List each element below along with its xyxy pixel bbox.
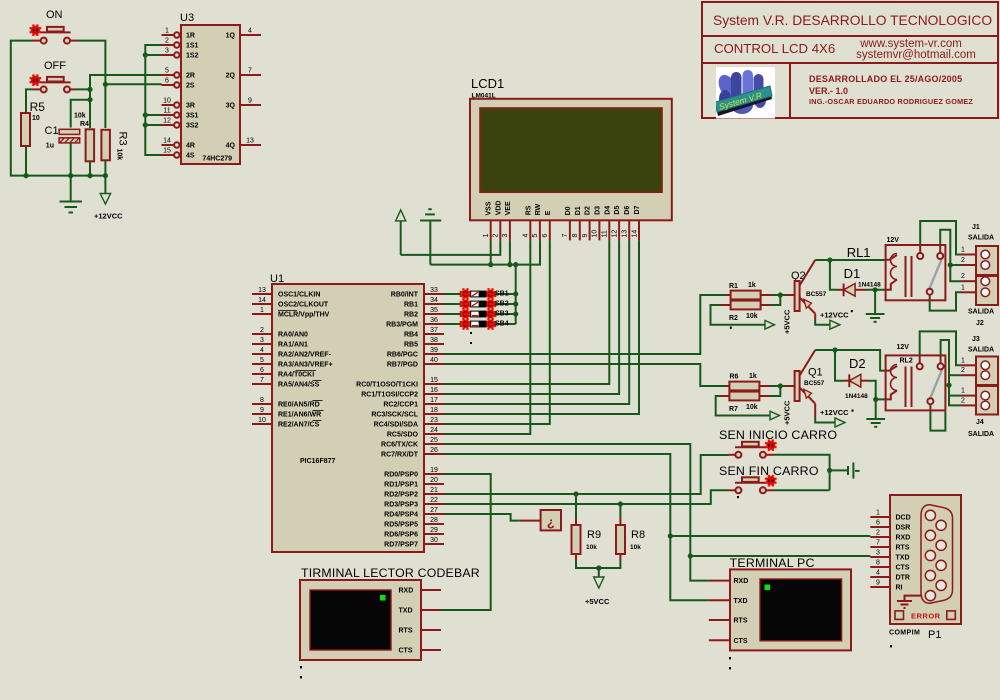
svg-text:4R: 4R [186, 143, 195, 150]
svg-text:20: 20 [430, 477, 438, 484]
svg-text:RD3/PSP3: RD3/PSP3 [384, 502, 418, 509]
ERROR indicator [895, 611, 955, 620]
svg-text:1: 1 [961, 247, 965, 254]
svg-text:D1: D1 [844, 266, 861, 281]
svg-text:SALIDA: SALIDA [968, 309, 994, 316]
wire relay NC to J1 J2 [940, 230, 961, 282]
svg-text:29: 29 [430, 527, 438, 534]
logic probe pin [520, 520, 541, 522]
node J branch ch2 [946, 383, 951, 388]
wire relay2 NO stub [930, 410, 945, 430]
svg-text:12: 12 [163, 118, 171, 125]
svg-text:D2: D2 [849, 356, 866, 371]
svg-text:8: 8 [876, 560, 880, 567]
wire Q1 emitter to +12VCC [815, 417, 835, 423]
node gnd tap ch2 [873, 397, 878, 402]
svg-text:¿: ¿ [547, 515, 555, 530]
svg-text:SALIDA: SALIDA [968, 431, 994, 438]
button OFF [30, 74, 76, 92]
svg-text:RE2/AN7/CS: RE2/AN7/CS [278, 422, 320, 429]
svg-text:3R: 3R [186, 103, 195, 110]
svg-text:3S2: 3S2 [186, 123, 199, 130]
wire RC1 to LCD D5 [444, 240, 619, 394]
U3 pin numbers [163, 28, 254, 155]
svg-text:36: 36 [430, 317, 438, 324]
U1 right pins [424, 294, 444, 544]
resistor R5 [21, 113, 30, 146]
svg-text:RB2: RB2 [404, 312, 418, 319]
node R8 tap [618, 501, 623, 506]
U3 left pins [162, 32, 180, 157]
svg-text:2: 2 [961, 257, 965, 264]
svg-text:SB3: SB3 [495, 311, 509, 318]
svg-text:ERROR: ERROR [911, 611, 941, 620]
U3 pin names [186, 33, 236, 160]
wire SB ground bus [515, 265, 517, 324]
svg-text:37: 37 [430, 327, 438, 334]
svg-text:1: 1 [961, 388, 965, 395]
svg-text:CTS: CTS [734, 638, 748, 645]
svg-text:J4: J4 [976, 419, 984, 426]
svg-text:10k: 10k [746, 404, 758, 411]
svg-text:D0: D0 [565, 206, 572, 215]
svg-text:4: 4 [876, 570, 880, 577]
wire branch J3 pin2 [949, 374, 961, 376]
svg-text:6: 6 [260, 367, 264, 374]
wire ground net VSS VEE RW [430, 240, 540, 264]
svg-text:RA4/T0CKI: RA4/T0CKI [278, 372, 314, 379]
wire INICIO right to bus [774, 455, 830, 491]
svg-text:RI: RI [896, 585, 903, 592]
svg-text:RC7/RX/DT: RC7/RX/DT [381, 452, 419, 459]
wire FIN right to bus [774, 489, 830, 491]
svg-text:P1: P1 [928, 629, 941, 641]
wire U3 S-bus [145, 45, 161, 155]
svg-text:R9: R9 [587, 529, 601, 541]
svg-text:2: 2 [260, 327, 264, 334]
relay RL1 [886, 245, 946, 300]
svg-text:10k: 10k [74, 113, 86, 120]
svg-text:TXD: TXD [399, 608, 413, 615]
svg-text:10k: 10k [746, 313, 758, 320]
svg-text:1k: 1k [749, 373, 757, 380]
svg-text:15: 15 [430, 377, 438, 384]
COMPIM pin numbers [876, 510, 880, 587]
wire R7 to +5VCC arrow [716, 396, 770, 416]
wire RD3 to SEN FIN [444, 490, 729, 504]
svg-text:D3: D3 [594, 206, 601, 215]
wire RC4 to LCD E [444, 240, 550, 424]
svg-text:23: 23 [430, 417, 438, 424]
wire SB4 to bus [495, 323, 516, 325]
svg-text:4: 4 [260, 347, 264, 354]
svg-text:2Q: 2Q [226, 73, 236, 80]
svg-text:26: 26 [430, 447, 438, 454]
ground ch1 [866, 290, 885, 322]
COMPIM pin names [896, 515, 911, 592]
svg-text:J3: J3 [972, 336, 980, 343]
svg-text:22: 22 [430, 497, 438, 504]
svg-text:D6: D6 [624, 206, 631, 215]
node Q2 base [778, 292, 783, 297]
wire RD4 to logic probe [444, 514, 520, 521]
wire OFF right to 2R [76, 75, 162, 89]
svg-text:9: 9 [248, 98, 252, 105]
svg-text:RC4/SDI/SDA: RC4/SDI/SDA [374, 422, 418, 429]
svg-text:8: 8 [260, 397, 264, 404]
node D1 tap [827, 257, 832, 262]
wire R6 R7 to Q1 base [770, 386, 795, 396]
svg-text:R5: R5 [30, 100, 46, 114]
svg-text:DSR: DSR [896, 525, 911, 532]
diode D2 [849, 374, 869, 387]
svg-text:RA5/AN4/SS: RA5/AN4/SS [278, 382, 320, 389]
svg-text:SALIDA: SALIDA [968, 235, 994, 242]
svg-text:RC6/TX/CK: RC6/TX/CK [381, 442, 418, 449]
svg-text:27: 27 [430, 507, 438, 514]
switch SB4 [444, 318, 496, 330]
power +5VCC down arrow [594, 568, 604, 588]
wire 1S2 stub [145, 54, 161, 56]
svg-text:Q1: Q1 [808, 367, 823, 379]
svg-text:R4: R4 [80, 121, 89, 128]
svg-text:25: 25 [430, 437, 438, 444]
svg-text:1S2: 1S2 [186, 53, 199, 60]
svg-text:COMPIM: COMPIM [889, 630, 920, 637]
connector J3 [961, 357, 998, 386]
svg-text:SB1: SB1 [495, 291, 509, 298]
diode D1 [844, 284, 866, 297]
svg-text:U3: U3 [180, 12, 194, 24]
svg-text:ON: ON [46, 9, 63, 21]
svg-text:DESARROLLADO EL 25/AGO/2005: DESARROLLADO EL 25/AGO/2005 [809, 74, 962, 84]
node 3S1 [143, 112, 148, 117]
resistor R9 [572, 494, 581, 560]
svg-text:1: 1 [260, 307, 264, 314]
svg-text:10: 10 [163, 98, 171, 105]
svg-text:RW: RW [535, 203, 542, 215]
hidden pin dots misc [730, 327, 732, 329]
wire C1 branch [71, 100, 90, 128]
connector COMPIM P1 [890, 495, 961, 624]
svg-text:1: 1 [961, 357, 965, 364]
button ON [30, 24, 78, 43]
wire to antenna symbol [830, 469, 848, 471]
U1 pin names [278, 292, 419, 549]
svg-text:40: 40 [430, 357, 438, 364]
svg-text:33: 33 [430, 287, 438, 294]
svg-text:VEE: VEE [505, 201, 512, 215]
power +5VCC right arrow ch1 [765, 320, 775, 329]
hidden dots terminal pc [729, 657, 731, 659]
node R4 rail [87, 173, 92, 178]
U1 overlines active-low [278, 311, 324, 421]
svg-text:R1: R1 [729, 283, 738, 290]
resistor R2 [721, 301, 771, 310]
svg-text:19: 19 [430, 467, 438, 474]
wire C1 bottom [70, 143, 72, 176]
svg-text:7: 7 [248, 68, 252, 75]
connector J4 [961, 386, 998, 415]
button SEN FIN [729, 475, 777, 493]
mcu U1 PIC16F877 [272, 284, 424, 552]
wire to D2 cathode [835, 350, 849, 381]
switch SB1 [444, 288, 496, 300]
node SB bus 314 [513, 311, 518, 316]
resistor R7 [721, 392, 770, 401]
svg-text:RB6/PGC: RB6/PGC [387, 352, 418, 359]
svg-text:RD0/PSP0: RD0/PSP0 [384, 472, 418, 479]
svg-text:RTS: RTS [734, 618, 748, 625]
node R9 tap [573, 491, 578, 496]
resistor R6 [725, 382, 770, 391]
svg-text:RC5/SDO: RC5/SDO [387, 432, 419, 439]
wire D1 anode to coil and ground [866, 289, 886, 291]
wire Q2 collector to relay coil [815, 259, 885, 261]
wire SB1 to bus [495, 293, 516, 295]
svg-text:3: 3 [165, 48, 169, 55]
svg-text:+5VCC: +5VCC [783, 309, 792, 334]
svg-text:TXD: TXD [896, 555, 910, 562]
node +5 join [596, 565, 601, 570]
svg-text:6: 6 [876, 520, 880, 527]
svg-text:RC0/T1OSO/T1CKI: RC0/T1OSO/T1CKI [356, 382, 418, 389]
terminal CODEBAR [300, 580, 421, 660]
svg-text:PIC16F877: PIC16F877 [300, 458, 336, 465]
wire 3S1 stub [145, 114, 161, 116]
svg-text:TERMINAL PC: TERMINAL PC [730, 556, 815, 570]
wire R5 bottom [25, 146, 27, 176]
svg-text:C1: C1 [45, 125, 59, 137]
LCD pin numbers rotated [483, 230, 638, 238]
svg-text:4: 4 [523, 234, 530, 238]
wire relay2 common to J3 pin1 [920, 331, 961, 365]
svg-text:CTS: CTS [896, 565, 910, 572]
wire Q2 emitter to +12VCC [815, 320, 830, 325]
svg-text:D7: D7 [634, 205, 641, 214]
wire R9 R8 join [576, 560, 620, 568]
switch SB2 [444, 298, 496, 310]
svg-text:VER.- 1.0: VER.- 1.0 [809, 86, 848, 96]
wire RC5 to LCD RS [444, 240, 530, 434]
wire Q1 collector to relay coil [815, 350, 885, 371]
svg-text:RB7/PGD: RB7/PGD [387, 362, 418, 369]
hidden dots codebar [300, 666, 302, 668]
COMPIM internal ground [897, 596, 921, 608]
svg-text:RB4: RB4 [404, 332, 418, 339]
node junction C1 branch [87, 97, 92, 102]
svg-text:RB3/PGM: RB3/PGM [386, 322, 418, 329]
svg-text:R3: R3 [117, 132, 129, 146]
node 3S2 [143, 122, 148, 127]
wire RC6 to terminal RXD [444, 444, 709, 581]
svg-text:+12VCC: +12VCC [820, 311, 849, 320]
U3 right pins [240, 35, 261, 145]
svg-text:1Q: 1Q [226, 33, 236, 40]
svg-text:DTR: DTR [896, 575, 910, 582]
wire branch J1 pin2 [950, 264, 961, 266]
svg-text:VDD: VDD [495, 201, 502, 216]
svg-text:+5VCC: +5VCC [783, 400, 792, 425]
svg-text:TXD: TXD [734, 598, 748, 605]
node VEE [507, 262, 512, 267]
transistor Q2 BC557 [795, 260, 816, 320]
relay RL2 [886, 355, 946, 410]
svg-text:D2: D2 [585, 206, 592, 215]
svg-text:1: 1 [876, 510, 880, 517]
U1 pin numbers [258, 287, 438, 544]
svg-text:E: E [545, 210, 552, 215]
resistor R4 [86, 129, 95, 161]
svg-text:1: 1 [165, 28, 169, 35]
svg-text:RB5: RB5 [404, 342, 418, 349]
svg-text:2: 2 [493, 234, 500, 238]
node SB bus 294 [513, 291, 518, 296]
hidden dot compim [890, 645, 892, 647]
svg-text:13: 13 [258, 287, 266, 294]
svg-text:6: 6 [542, 234, 549, 238]
svg-text:SB4: SB4 [495, 321, 509, 328]
svg-text:OSC1/CLKIN: OSC1/CLKIN [278, 292, 320, 299]
svg-text:+12VCC: +12VCC [820, 408, 849, 417]
wire branch J4 pin1 [949, 395, 961, 397]
wire to COMPIM RXD [670, 535, 870, 537]
transistor Q1 BC557 [795, 350, 816, 417]
svg-text:4Q: 4Q [226, 143, 236, 150]
svg-text:RA3/AN3/VREF+: RA3/AN3/VREF+ [278, 362, 333, 369]
wire RC7 to terminal TXD [444, 454, 709, 600]
svg-text:5: 5 [532, 234, 539, 238]
svg-text:9: 9 [876, 580, 880, 587]
node junction OFF [87, 87, 92, 92]
ground ch2 [866, 399, 885, 426]
svg-text:RD6/PSP6: RD6/PSP6 [384, 532, 418, 539]
wire RB7 to R6 [444, 364, 725, 386]
wire RC2 to LCD D6 [444, 240, 629, 404]
svg-text:1: 1 [483, 234, 490, 238]
svg-text:5: 5 [260, 357, 264, 364]
PC pin labels [734, 578, 749, 645]
svg-text:7: 7 [876, 540, 880, 547]
node sensor bus [827, 468, 832, 473]
svg-text:6: 6 [165, 78, 169, 85]
svg-text:3: 3 [876, 550, 880, 557]
svg-text:10k: 10k [116, 149, 123, 161]
svg-text:3S1: 3S1 [186, 113, 199, 120]
node SB bus 304 [513, 301, 518, 306]
svg-text:7: 7 [562, 234, 569, 238]
node D2 tap [832, 347, 837, 352]
svg-text:10: 10 [592, 230, 599, 238]
wire R3 bottom [104, 160, 106, 175]
svg-text:35: 35 [430, 307, 438, 314]
chip U3 74HC279 [181, 25, 240, 164]
wire ON right down through R3 [78, 41, 105, 128]
wire relay common to J1 pin1 [920, 221, 961, 255]
svg-text:1k: 1k [748, 282, 756, 289]
svg-text:13: 13 [246, 138, 254, 145]
svg-text:2: 2 [961, 273, 965, 280]
svg-text:RL2: RL2 [900, 358, 913, 365]
DB9 outline [921, 505, 953, 603]
svg-text:OFF: OFF [44, 60, 66, 72]
PC pin stubs [709, 581, 730, 641]
svg-text:RC3/SCK/SCL: RC3/SCK/SCL [371, 412, 418, 419]
wire SB3 to bus [495, 313, 516, 315]
svg-text:RA2/AN2/VREF-: RA2/AN2/VREF- [278, 352, 332, 359]
svg-text:1R: 1R [186, 33, 195, 40]
node R5 rail [23, 173, 28, 178]
svg-text:3Q: 3Q [226, 103, 236, 110]
svg-text:SEN INICIO CARRO: SEN INICIO CARRO [719, 428, 837, 442]
hidden pin dots RB4 RB5 [470, 332, 472, 334]
svg-text:RD5/PSP5: RD5/PSP5 [384, 522, 418, 529]
wire RB6 to R1 [444, 295, 726, 354]
svg-text:1u: 1u [46, 143, 54, 150]
svg-text:TIRMINAL LECTOR CODEBAR: TIRMINAL LECTOR CODEBAR [301, 566, 480, 580]
svg-text:D5: D5 [614, 206, 621, 215]
svg-text:2S: 2S [186, 83, 195, 90]
resistor R3 [101, 130, 110, 161]
resistor R1 [726, 291, 771, 300]
svg-text:R2: R2 [729, 315, 738, 322]
svg-text:RS: RS [525, 205, 532, 215]
wire VSS drop [490, 240, 492, 264]
svg-text:RD1/PSP1: RD1/PSP1 [384, 482, 418, 489]
svg-text:LCD1: LCD1 [471, 76, 504, 91]
terminal PC [730, 569, 851, 650]
node gnd tap ch1 [873, 287, 878, 292]
wire VEE drop [509, 240, 511, 264]
svg-text:RD2/PSP2: RD2/PSP2 [384, 492, 418, 499]
svg-text:2: 2 [961, 397, 965, 404]
svg-text:39: 39 [430, 347, 438, 354]
svg-text:14: 14 [163, 138, 171, 145]
logic probe box [541, 510, 561, 530]
svg-text:MCLR/Vpp/THV: MCLR/Vpp/THV [278, 312, 330, 319]
svg-text:RA0/AN0: RA0/AN0 [278, 332, 308, 339]
svg-text:R7: R7 [729, 406, 738, 413]
wire 2S branch [105, 83, 161, 85]
svg-text:RXD: RXD [734, 578, 749, 585]
power +12VCC down arrow [100, 176, 110, 204]
svg-text:CTS: CTS [399, 648, 413, 655]
CODEBAR pin labels [399, 588, 414, 655]
svg-text:RE1/AN6/WR: RE1/AN6/WR [278, 412, 321, 419]
svg-text:10: 10 [258, 417, 266, 424]
CODEBAR pin stubs [421, 590, 441, 650]
svg-text:9: 9 [260, 407, 264, 414]
svg-text:12V: 12V [887, 237, 900, 244]
svg-text:SALIDA: SALIDA [968, 347, 994, 354]
svg-text:2: 2 [165, 38, 169, 45]
wire D2 anode to coil bottom [869, 381, 886, 400]
node RC6 compim branch [688, 553, 693, 558]
LCD pin stubs [491, 220, 639, 240]
svg-text:RD7/PSP7: RD7/PSP7 [384, 542, 418, 549]
svg-text:18: 18 [430, 407, 438, 414]
svg-text:10: 10 [32, 115, 40, 122]
svg-text:3: 3 [260, 337, 264, 344]
display LCD1 body [470, 99, 672, 221]
power +12VCC right arrow ch2 [835, 418, 845, 427]
svg-text:1N4148: 1N4148 [858, 282, 881, 289]
svg-text:R6: R6 [730, 374, 739, 381]
wire relay2 NC to J3 J4 [941, 340, 961, 405]
svg-text:RD4/PSP4: RD4/PSP4 [384, 512, 418, 519]
power +5V up arrow [396, 210, 406, 255]
DB9 holes [925, 510, 946, 600]
